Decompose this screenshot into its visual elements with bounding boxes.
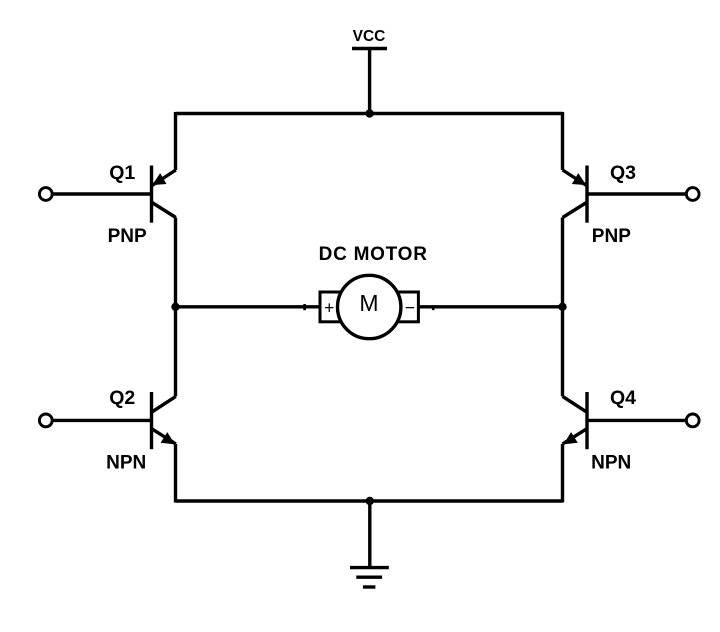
motor M1 body xyxy=(338,275,401,338)
wire right vertical bottom (Q4 emitter to bottom rail) xyxy=(561,444,564,503)
wire Q1 base xyxy=(52,192,152,195)
wire motor − terminal to node B xyxy=(418,305,563,308)
wire Q2 base xyxy=(52,419,152,422)
wire Q3 base xyxy=(587,192,687,195)
svg-text:NPN: NPN xyxy=(106,452,146,473)
wire right vertical upper (top rail to Q3 emitter) xyxy=(561,112,564,170)
svg-text:Q1: Q1 xyxy=(109,162,135,184)
wire left vertical middle (Q1 collector to node A) xyxy=(174,218,177,307)
svg-text:VCC: VCC xyxy=(353,28,386,45)
wire left vertical lower (node A to Q2 collector) xyxy=(174,307,177,397)
svg-text:M: M xyxy=(359,290,378,316)
transistor Q1 (PNP, top-left) xyxy=(152,166,176,223)
svg-text:Q4: Q4 xyxy=(610,387,636,409)
wire Q4 base xyxy=(587,419,687,422)
svg-text:PNP: PNP xyxy=(108,226,147,247)
transistor Q3 (PNP, top-right) xyxy=(563,166,587,223)
junction dot bottom rail / ground xyxy=(366,497,374,505)
wire right vertical lower (node B to Q4 collector) xyxy=(561,307,564,397)
wire top rail xyxy=(176,112,563,115)
tick on right motor wire xyxy=(432,305,435,310)
motor M1 right brush terminal xyxy=(391,292,418,322)
terminal Q2 base xyxy=(39,414,52,427)
svg-text:PNP: PNP xyxy=(592,226,631,247)
terminal Q3 base xyxy=(686,188,699,201)
transistor Q4 (NPN, bottom-right) xyxy=(563,392,587,449)
tick on left motor wire xyxy=(303,304,306,310)
svg-text:−: − xyxy=(405,298,415,318)
svg-text:DC MOTOR: DC MOTOR xyxy=(319,244,428,265)
wire right vertical middle (Q3 collector to node B) xyxy=(561,218,564,307)
junction dot node B (right motor node) xyxy=(558,303,566,311)
power symbol VCC xyxy=(352,49,387,114)
junction dot top rail / VCC xyxy=(365,109,373,117)
motor M1 left brush terminal xyxy=(320,292,347,322)
terminal Q4 base xyxy=(686,414,699,427)
wire node A to motor + terminal xyxy=(176,305,322,308)
junction dot node A (left motor node) xyxy=(171,303,179,311)
svg-text:Q3: Q3 xyxy=(610,162,636,184)
svg-text:+: + xyxy=(324,298,334,318)
wire bottom rail xyxy=(176,499,563,502)
ground xyxy=(350,501,389,587)
wire left vertical bottom (Q2 emitter to bottom rail) xyxy=(174,444,177,503)
transistor Q2 (NPN, bottom-left) xyxy=(152,392,176,449)
svg-text:Q2: Q2 xyxy=(109,387,135,409)
terminal Q1 base xyxy=(39,188,52,201)
wire left vertical upper (top rail to Q1 emitter) xyxy=(174,112,177,170)
svg-text:NPN: NPN xyxy=(591,453,631,474)
